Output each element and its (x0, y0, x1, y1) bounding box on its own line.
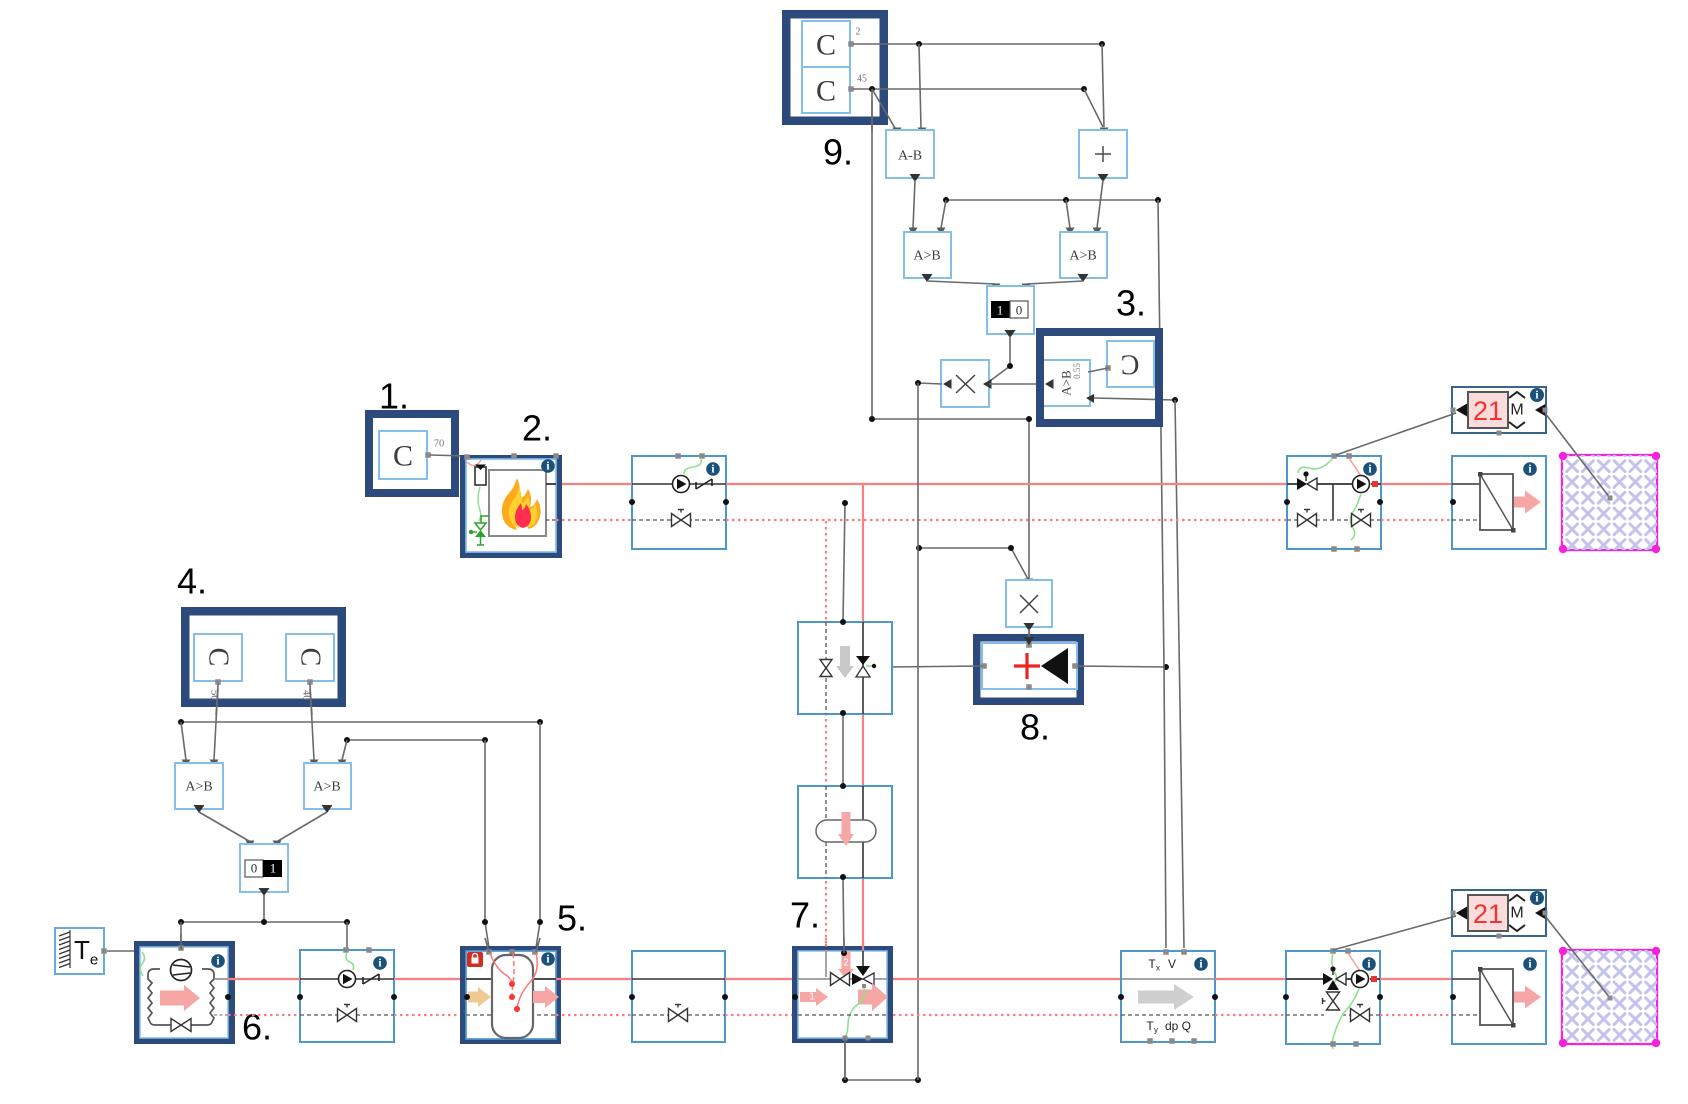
junction (629, 499, 635, 505)
block multiply 2 (1006, 580, 1052, 631)
constant C1 (value 2) (802, 21, 861, 67)
junction (482, 919, 488, 925)
svg-text:A>B: A>B (1069, 249, 1096, 264)
svg-text:C: C (393, 440, 413, 473)
control net vertical x918 (917, 383, 919, 1080)
block A>B upper-right (1060, 232, 1107, 282)
junction (537, 719, 543, 725)
valve block on vertical pipe (798, 622, 892, 714)
label 9. (823, 132, 853, 173)
svg-text:0: 0 (1016, 303, 1023, 318)
wire A>B2 to switch (1022, 281, 1084, 291)
outdoor sensor Te block (55, 928, 107, 974)
wire net to multiply1 A (918, 383, 942, 384)
junction (1284, 499, 1290, 505)
tank sensor vertical 1 (536, 722, 540, 948)
right net vertical A (1158, 200, 1166, 948)
switch block 1|0 (987, 286, 1034, 338)
wire 3way valve output down (845, 1043, 918, 1080)
junction (1155, 197, 1161, 203)
return pipe 3way-meter (893, 1014, 1121, 1016)
highlight box 2 (boiler) (464, 459, 558, 554)
svg-text:45: 45 (857, 74, 867, 85)
wire to plus input (from C1) (1100, 44, 1109, 135)
heating element block (plus) (981, 642, 1078, 690)
supply pipe pump-mixvalve (726, 483, 1287, 485)
svg-text:0: 0 (251, 861, 258, 876)
return pipe pump-mixvalve (726, 519, 1287, 521)
junction (1063, 197, 1069, 203)
return pipe tank-valve (556, 1014, 632, 1016)
supply pipe mix-hx top (1381, 483, 1453, 485)
wire overlay multiply2 out (1024, 629, 1035, 645)
junction (1099, 41, 1105, 47)
wire plus out to A>B2 B (1093, 180, 1104, 235)
wire switch2 out (263, 894, 265, 922)
block A>B rotated (1043, 360, 1094, 406)
wire to A-B input B (918, 44, 927, 135)
return pipe vertical red dotted (825, 521, 827, 951)
wire thermostat to room top (1545, 413, 1613, 501)
wire overlay tank stub left (485, 938, 489, 952)
heat exchanger block top (1452, 456, 1546, 549)
wire overlay box9 (871, 100, 873, 132)
junction (869, 416, 875, 422)
highlight box 6 (heat pump) (138, 945, 231, 1040)
supply pipe pump2-tank (394, 978, 462, 980)
svg-text:5.: 5. (557, 898, 587, 939)
highlight box 3 border overlay (1040, 332, 1159, 423)
wire plus-block to right net (1077, 666, 1166, 667)
junction (869, 86, 875, 92)
svg-text:1: 1 (809, 992, 815, 1003)
junction (464, 994, 470, 1000)
svg-text:C: C (816, 29, 836, 62)
junction (722, 994, 728, 1000)
junction (1081, 86, 1087, 92)
wire to plus input (from C2) (1084, 89, 1103, 127)
wire switch out (990, 336, 1010, 381)
long net line C45 down-right (872, 89, 1029, 579)
flow meter block (TV) (1121, 949, 1215, 1044)
wire overlay tank stub right (536, 938, 540, 952)
svg-text:V: V (1168, 957, 1176, 971)
block A>B upper-left (904, 232, 951, 282)
junction (841, 950, 847, 956)
svg-text:0.55: 0.55 (1072, 363, 1082, 379)
heat pump block (140, 945, 228, 1038)
junction (1377, 994, 1383, 1000)
wire overlay 3way top dotted (825, 938, 827, 952)
wire C4 to A>B3 B (210, 684, 219, 767)
net line y200 (946, 199, 1158, 201)
junction (840, 874, 846, 880)
supply pipe 3way-meter (893, 978, 1121, 980)
junction (629, 994, 635, 1000)
wire A-B out to A>B1 (909, 180, 918, 235)
wire overlay C5 stub (310, 689, 312, 715)
svg-text:3.: 3. (1116, 283, 1146, 324)
svg-text:M: M (1510, 905, 1523, 922)
constant C2 (value 45) (802, 67, 867, 113)
pump block bottom row (300, 947, 394, 1042)
wire A>B4 to switch2 (273, 812, 328, 848)
status line vertical (843, 503, 845, 951)
return pipe mix-hx top (1381, 519, 1453, 521)
wire A>B1 to switch (927, 281, 1001, 291)
junction (261, 919, 267, 925)
junction (916, 41, 922, 47)
junction (840, 619, 846, 625)
svg-text:A>B: A>B (313, 780, 340, 795)
switch block 0|1 (240, 844, 288, 896)
tank sensor vertical 2 (485, 740, 489, 948)
return pipe pump2-tank (394, 1014, 462, 1016)
junction (537, 919, 543, 925)
highlight box 4 (185, 611, 342, 703)
pump block top row (632, 453, 726, 549)
right net vertical B (1175, 400, 1184, 948)
svg-text:1.: 1. (379, 376, 409, 417)
svg-text:C: C (203, 648, 234, 667)
wire to A-B input A (872, 89, 902, 135)
highlight box 1 (369, 414, 455, 493)
wire y740 to A>B4 B (338, 740, 348, 767)
junction (1118, 994, 1124, 1000)
junction (840, 783, 846, 789)
block A>B lower-right (304, 763, 351, 813)
wire thermostat bottom to room (1545, 916, 1613, 1001)
block multiply 1 (941, 360, 992, 407)
wire y722 to A>B3 A (181, 722, 191, 767)
wire overlay heatpump stub (180, 934, 182, 950)
wire to pump2 top (346, 922, 348, 948)
wire overlay 3way top gray (843, 938, 845, 953)
junction (723, 499, 729, 505)
wire A>B rotated to right net (1094, 398, 1175, 400)
junction (225, 994, 231, 1000)
supply pipe tank-valve (556, 978, 632, 980)
svg-text:A>B: A>B (913, 249, 940, 264)
junction (482, 737, 488, 743)
junction (842, 1077, 848, 1083)
boiler block (464, 453, 559, 552)
svg-text:8.: 8. (1020, 707, 1050, 748)
room block bottom (1559, 947, 1660, 1047)
svg-text:2: 2 (856, 27, 861, 38)
thermostat block bottom (1451, 890, 1548, 939)
label 8. (1020, 707, 1050, 748)
highlight box 3 (1040, 332, 1159, 423)
junction (1212, 994, 1218, 1000)
svg-text:21: 21 (1473, 396, 1503, 426)
junction (178, 719, 184, 725)
svg-text:A-B: A-B (898, 149, 922, 164)
block A>B lower-left (175, 763, 223, 813)
return pipe meter-mix2 (1215, 1014, 1286, 1016)
svg-text:9.: 9. (823, 132, 853, 173)
junction (915, 380, 921, 386)
return pipe boiler-pump (556, 519, 632, 521)
wire multiply2 to plus-block (1028, 629, 1030, 641)
highlight box 9 (786, 14, 884, 121)
supply pipe mix2-hx2 (1380, 978, 1452, 980)
heat exchanger block bottom (1452, 951, 1546, 1044)
junction (792, 994, 798, 1000)
junction (916, 545, 922, 551)
junction (1450, 499, 1456, 505)
net line y740 (347, 739, 485, 741)
storage tank block (466, 949, 559, 1039)
wire overlay 3way top red (862, 940, 864, 950)
supply pipe boiler-pump (562, 483, 632, 485)
svg-text:C: C (816, 75, 836, 108)
highlight box 7 (3-way valve) (796, 950, 890, 1040)
block plus (1079, 130, 1127, 182)
wire overlay 3way bottom (844, 1038, 846, 1080)
svg-text:C: C (295, 648, 326, 667)
label 7. (790, 895, 820, 936)
wire y200 to A>B1 B (937, 200, 947, 235)
svg-text:21: 21 (1473, 899, 1503, 929)
wire mixvalve to thermostat top (1336, 413, 1456, 455)
room block top (1559, 452, 1660, 553)
wire C to A>B rotated (1088, 368, 1108, 372)
net line y548 (919, 548, 1034, 586)
svg-text:70: 70 (434, 439, 445, 450)
wire Te to heatpump (107, 949, 140, 954)
supply pipe valve-3way (725, 978, 798, 980)
supply pipe hp-pump2 (228, 978, 300, 980)
svg-text:T: T (74, 935, 90, 965)
block A-B (886, 130, 934, 182)
net line y722 (181, 721, 540, 723)
svg-text:x: x (1156, 964, 1160, 973)
wire valveblock to plus-block (872, 664, 982, 670)
return pipe valve-3way (725, 1014, 798, 1016)
svg-text:y: y (1154, 1026, 1158, 1035)
junction (391, 994, 397, 1000)
three-way valve block (798, 951, 888, 1041)
mixing valve block top (1287, 453, 1381, 552)
svg-text:2: 2 (843, 958, 849, 969)
junction (344, 737, 350, 743)
label 2. (522, 408, 552, 449)
svg-text:C: C (1121, 349, 1140, 380)
junction (840, 710, 846, 716)
junction (344, 919, 350, 925)
junction (943, 197, 949, 203)
wire C2 output (853, 88, 1084, 90)
label 3. (1116, 283, 1146, 324)
wire C3 to boiler (430, 455, 466, 456)
highlight box 5 (tank) (464, 950, 557, 1040)
constant C3 (value 70) (379, 431, 444, 479)
shutoff valve block (632, 951, 725, 1042)
net line y922 (181, 921, 347, 923)
constant C5 rotated (40) (286, 634, 334, 701)
junction (842, 500, 848, 506)
thermostat block top (1451, 387, 1548, 436)
junction (1377, 499, 1383, 505)
wire C1 to junctions (853, 43, 1102, 45)
junction (1163, 664, 1169, 670)
svg-text:M: M (1510, 402, 1523, 419)
label 4. (177, 561, 207, 602)
wire C5 to A>B4 A (310, 684, 319, 767)
svg-text:7.: 7. (790, 895, 820, 936)
return pipe hp-pump2 (228, 1014, 300, 1016)
mixing valve block bottom (1286, 948, 1380, 1049)
label 6. (242, 1007, 272, 1048)
wire A>B3 to switch2 (199, 812, 255, 848)
svg-text:dp Q: dp Q (1165, 1019, 1191, 1033)
junction (1450, 994, 1456, 1000)
svg-text:2.: 2. (522, 408, 552, 449)
block constant C rotated (box3) (1105, 341, 1154, 387)
flow indicator block on vertical pipe (798, 786, 892, 878)
supply pipe vertical red (862, 484, 864, 947)
junction (1008, 545, 1014, 551)
junction (1026, 416, 1032, 422)
wire multiply1 to A>B rotated (989, 383, 1043, 385)
constant C4 rotated (50) (194, 634, 242, 701)
highlight box 8 (977, 638, 1081, 702)
svg-text:1: 1 (270, 861, 277, 876)
junction (868, 663, 874, 669)
wire y200 to A>B2 A (1066, 200, 1075, 235)
junction (178, 919, 184, 925)
junction (915, 1077, 921, 1083)
svg-text:e: e (90, 952, 98, 969)
svg-text:1: 1 (997, 303, 1004, 318)
label 5. (557, 898, 587, 939)
label 1. (379, 376, 409, 417)
svg-text:6.: 6. (242, 1007, 272, 1048)
junction (1283, 994, 1289, 1000)
wire to heatpump top (180, 922, 182, 944)
wire overlay C4 stub (216, 689, 218, 715)
junction (297, 994, 303, 1000)
wire mixvalve2 to thermostat bottom (1333, 916, 1456, 950)
svg-text:4.: 4. (177, 561, 207, 602)
return pipe mix2-hx2 (1380, 1014, 1452, 1016)
junction (1007, 363, 1013, 369)
supply pipe meter-mix2 (1215, 978, 1286, 980)
svg-text:A>B: A>B (185, 780, 212, 795)
junction (1172, 397, 1178, 403)
